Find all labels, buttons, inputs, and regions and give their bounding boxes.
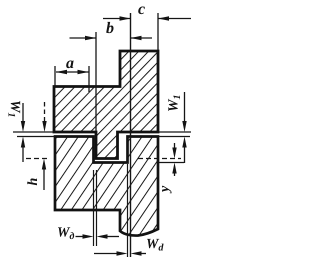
Wd-right dimension left arrow (94, 253, 117, 255)
dimension a right arrow (78, 70, 89, 74)
extension line right of joint upper (y=132) (158, 131, 191, 133)
dimension c right arrow with tail (158, 18, 191, 20)
W1 left lower arrow (up) (22, 146, 24, 162)
extension line a-left (54, 66, 56, 87)
extension line right of joint lower (y=136.5) (158, 136, 190, 138)
label b (106, 22, 113, 33)
reference plane line (long vertical at x=130.5) (130, 13, 132, 257)
extension line a-right (88, 66, 90, 92)
dimension b left arrow with tail (70, 37, 97, 39)
dashed extension of tooth bottom to left (26, 158, 49, 160)
dimension y lower arrow (up to slot bottom ext) (174, 172, 176, 176)
dimension h arrow (up to tooth bottom) (43, 168, 45, 190)
Wd-right extension line (slot flank) (127, 164, 129, 257)
Wd-right dimension right arrow (142, 253, 147, 255)
Wd-left dimension left arrow (76, 236, 84, 238)
label Wd right (147, 239, 164, 251)
label c (138, 6, 145, 14)
W1 right lower arrow (up) (184, 147, 186, 163)
Wd-left extension line (tooth flank) (96, 170, 98, 246)
dimension a line (56, 71, 89, 73)
upper part body (hatched) (54, 51, 158, 159)
extension line left of joint upper (y=132) (13, 131, 54, 133)
label y (rotated) (162, 186, 171, 194)
dimension a left arrow (56, 70, 67, 74)
dimension y upper arrow (down to tooth bottom ext) (174, 143, 176, 150)
W1 left upper arrow (down) (22, 103, 24, 124)
extension of slot bottom to right (y=162.5) (159, 162, 184, 164)
dashed arrow to upper joint line (down, at x=44.5) (44, 102, 46, 123)
label W1 right (rotated) (168, 96, 180, 111)
dimension c left arrow with tail (103, 18, 131, 20)
label W1 left (rotated) (9, 101, 21, 116)
upper part outline (54, 51, 158, 159)
extension line b-left (tooth flank plane) (95, 32, 97, 131)
dimension b right arrow with tail (131, 37, 153, 39)
W1 right upper arrow (down) (184, 92, 186, 124)
label Wd left (58, 227, 74, 239)
Wd-left dimension right arrow (108, 236, 120, 238)
lower part outline (55, 137, 158, 236)
label h (rotated) (27, 178, 37, 185)
Wd-left extension line (slot flank) (93, 170, 95, 246)
extension line left of joint lower (y=136.5) (17, 136, 55, 138)
label a (66, 60, 73, 68)
extension line c-right (157, 13, 159, 50)
dashed extension of tooth bottom to right (138, 158, 181, 160)
lower part body (hatched) (55, 137, 158, 236)
